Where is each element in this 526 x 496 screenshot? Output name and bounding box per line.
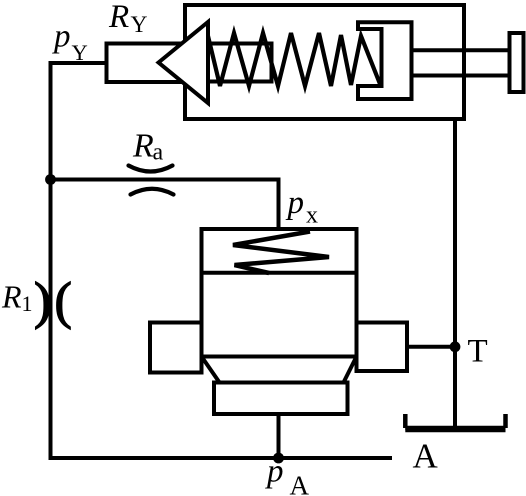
svg-text:A: A — [290, 471, 310, 496]
svg-text:p: p — [286, 185, 305, 221]
svg-text:Y: Y — [72, 40, 88, 65]
svg-text:p: p — [52, 19, 71, 55]
svg-text:): ) — [34, 273, 51, 330]
svg-text:a: a — [153, 140, 164, 166]
svg-text:1: 1 — [22, 291, 33, 316]
svg-text:R: R — [132, 128, 154, 165]
svg-text:T: T — [468, 334, 488, 370]
svg-text:R: R — [108, 0, 129, 35]
svg-text:p: p — [265, 454, 284, 490]
svg-text:A: A — [413, 437, 439, 476]
svg-text:R: R — [1, 279, 22, 315]
svg-text:Y: Y — [131, 12, 148, 38]
svg-text:x: x — [306, 203, 318, 229]
svg-text:(: ( — [55, 273, 72, 330]
